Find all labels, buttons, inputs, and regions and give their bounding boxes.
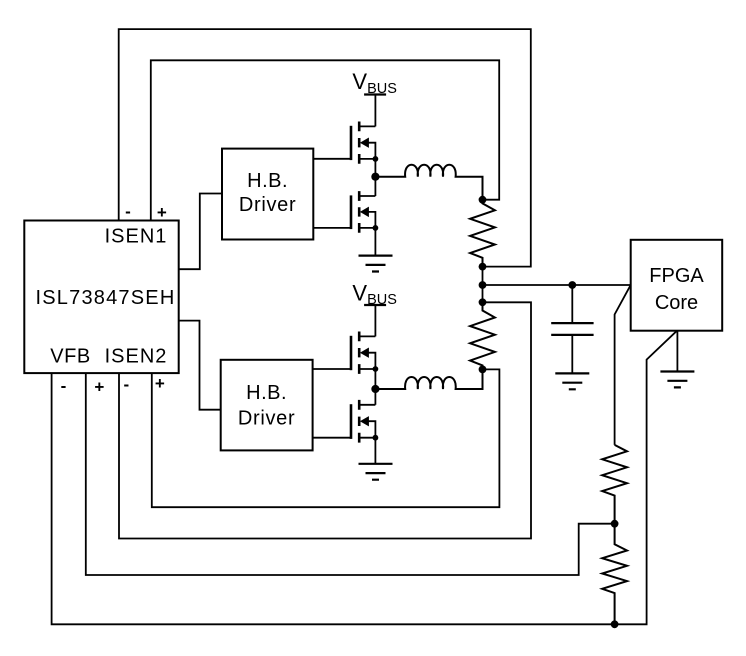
svg-text:VBUS: VBUS — [352, 69, 397, 97]
resistor RS2 phase 2 current sense — [470, 302, 495, 369]
node divider bottom — [611, 620, 619, 628]
ground phase 2 — [359, 464, 393, 480]
svg-text:+: + — [157, 203, 167, 222]
svg-text:Driver: Driver — [238, 407, 296, 429]
transistor Q1 — [351, 122, 378, 164]
wire U2 high gate drive — [313, 158, 351, 160]
node output tap — [479, 281, 487, 289]
power VBUS1 label — [352, 69, 397, 97]
power VBUS2 label — [352, 280, 397, 308]
svg-text:+: + — [155, 374, 165, 393]
svg-text:-: - — [125, 202, 131, 221]
wire U3 high gate drive — [313, 368, 351, 370]
node RS2 bottom — [479, 366, 487, 374]
node RS1 bottom — [479, 263, 487, 271]
svg-text:-: - — [123, 375, 129, 394]
svg-text:+: + — [94, 378, 104, 397]
wire ISEN2+ sense — [152, 369, 500, 507]
wire ISEN2- sense — [119, 302, 531, 538]
svg-text:FPGA: FPGA — [649, 265, 704, 287]
svg-text:ISL73847SEH: ISL73847SEH — [36, 287, 176, 309]
node phase 1 junction — [371, 173, 379, 181]
wire U1 PWM2 out to U3 input — [179, 321, 221, 410]
resistor RFB2 — [602, 524, 627, 625]
wire FPGA ground stub — [676, 331, 678, 372]
wire Q4 source to ground — [374, 438, 376, 464]
wire FPGA sense to divider top — [615, 285, 631, 445]
wire VBUS2 stem — [374, 305, 376, 336]
wire VFB- / ground return — [52, 331, 677, 625]
ground FPGA — [660, 372, 694, 388]
node phase 2 junction — [371, 385, 379, 393]
svg-text:ISEN1: ISEN1 — [105, 226, 168, 248]
resistor RS1 phase 1 current sense — [470, 200, 495, 267]
transistor Q3 — [351, 332, 378, 374]
wire U1 PWM1 out to U2 input — [179, 194, 222, 270]
wire U2 low gate drive — [313, 227, 351, 229]
wire phase node 1 rail — [374, 159, 376, 196]
ground phase 1 — [359, 256, 393, 272]
H.B. Driver U3 — [221, 360, 313, 451]
wire RS1 to output node — [482, 267, 484, 303]
transistor Q4 — [351, 400, 378, 443]
node C1 tap — [568, 281, 576, 289]
FPGA Core load block — [631, 240, 723, 331]
svg-text:Core: Core — [655, 292, 698, 314]
node RS2 top — [479, 298, 487, 306]
capacitor C1 output — [551, 285, 593, 373]
wire phase node 2 rail — [374, 369, 376, 405]
wire U3 low gate drive — [313, 437, 351, 439]
IC U1 ISL73847SEH — [24, 221, 178, 374]
svg-text:H.B.: H.B. — [247, 170, 288, 192]
node RS1 top — [479, 196, 487, 204]
svg-text:H.B.: H.B. — [246, 382, 287, 404]
svg-text:VFB: VFB — [50, 346, 90, 368]
node divider mid — [611, 520, 619, 528]
inductor L1 — [377, 165, 483, 200]
svg-text:ISEN2: ISEN2 — [105, 346, 168, 368]
transistor Q2 — [351, 191, 378, 233]
wire Q2 source to ground — [374, 228, 376, 256]
resistor RFB1 — [602, 445, 627, 524]
wire ISEN1+ inner sense loop — [151, 60, 499, 220]
svg-text:Driver: Driver — [239, 194, 297, 216]
wire ISEN1- outer sense loop — [119, 29, 531, 267]
wire output to FPGA — [483, 284, 631, 286]
inductor L2 — [377, 369, 483, 389]
wire VFB+ sense — [86, 373, 615, 575]
wire VBUS1 stem — [374, 95, 376, 127]
svg-text:-: - — [61, 377, 67, 396]
H.B. Driver U2 — [222, 149, 313, 240]
ground C1 — [555, 373, 589, 389]
